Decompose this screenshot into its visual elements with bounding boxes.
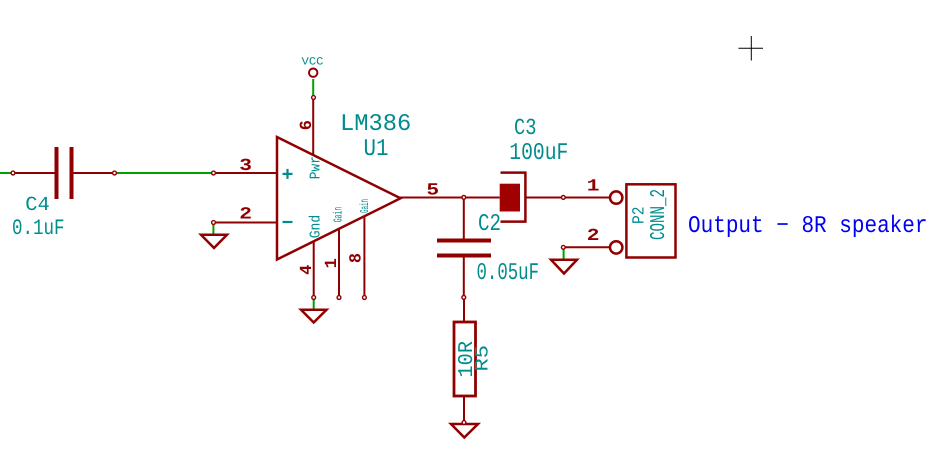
svg-text:0.1uF: 0.1uF bbox=[12, 216, 65, 241]
svg-text:2: 2 bbox=[587, 227, 600, 246]
svg-text:U1: U1 bbox=[364, 136, 389, 163]
svg-text:VCC: VCC bbox=[302, 56, 324, 68]
svg-text:R5: R5 bbox=[472, 345, 494, 372]
svg-text:C2: C2 bbox=[478, 211, 501, 238]
svg-text:Gain: Gain bbox=[358, 199, 372, 213]
svg-text:6: 6 bbox=[298, 120, 317, 130]
svg-text:2: 2 bbox=[239, 205, 252, 224]
svg-text:5: 5 bbox=[426, 181, 439, 200]
svg-text:CONN_2: CONN_2 bbox=[648, 189, 671, 240]
svg-text:0.05uF: 0.05uF bbox=[477, 260, 540, 287]
svg-text:3: 3 bbox=[239, 157, 252, 176]
svg-text:Gnd: Gnd bbox=[308, 215, 325, 239]
svg-text:LM386: LM386 bbox=[340, 111, 411, 138]
svg-text:4: 4 bbox=[298, 265, 317, 275]
svg-text:8: 8 bbox=[348, 253, 367, 263]
svg-text:100uF: 100uF bbox=[509, 140, 568, 167]
svg-text:Output − 8R speaker: Output − 8R speaker bbox=[688, 213, 928, 240]
svg-text:C3: C3 bbox=[514, 115, 537, 141]
svg-text:1: 1 bbox=[323, 258, 342, 268]
svg-text:P2: P2 bbox=[630, 207, 649, 225]
svg-text:C4: C4 bbox=[25, 194, 50, 217]
svg-text:Gain: Gain bbox=[332, 207, 346, 223]
svg-text:Pwr: Pwr bbox=[308, 156, 325, 179]
svg-text:1: 1 bbox=[587, 177, 600, 196]
